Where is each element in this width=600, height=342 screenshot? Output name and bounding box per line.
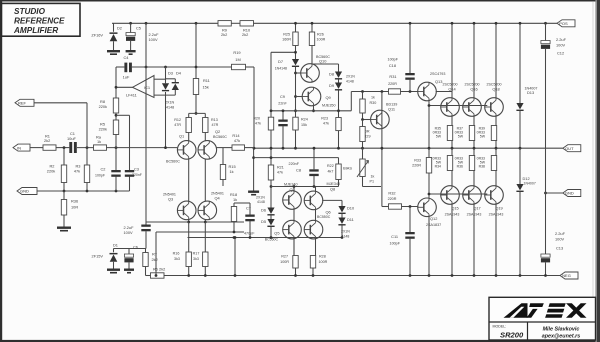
- svg-text:P1: P1: [370, 180, 375, 184]
- svg-text:15k: 15k: [301, 123, 307, 127]
- svg-text:5W: 5W: [458, 135, 464, 139]
- svg-text:220nF: 220nF: [132, 173, 142, 177]
- svg-text:C6: C6: [133, 245, 138, 250]
- svg-text:GND: GND: [20, 189, 29, 194]
- svg-text:Q10: Q10: [319, 59, 327, 64]
- svg-text:R22: R22: [327, 164, 334, 168]
- svg-text:10uF: 10uF: [67, 136, 76, 141]
- svg-text:Q11: Q11: [388, 107, 395, 112]
- svg-text:4k7: 4k7: [328, 170, 334, 174]
- svg-text:Q6: Q6: [326, 210, 331, 215]
- svg-text:2SA1943: 2SA1943: [489, 213, 504, 217]
- svg-text:1k: 1k: [233, 197, 237, 202]
- svg-text:1M: 1M: [235, 57, 240, 62]
- svg-text:47k: 47k: [255, 122, 261, 126]
- svg-text:2SA1943: 2SA1943: [467, 213, 482, 217]
- svg-text:R34: R34: [435, 165, 441, 169]
- svg-text:R36: R36: [71, 199, 78, 204]
- svg-text:BC560C: BC560C: [166, 160, 180, 164]
- svg-text:C2: C2: [101, 167, 106, 172]
- svg-text:15k: 15k: [203, 85, 209, 90]
- svg-text:R7: R7: [152, 252, 157, 257]
- svg-text:C3: C3: [134, 167, 139, 172]
- svg-text:100pF: 100pF: [388, 58, 399, 62]
- svg-text:47k: 47k: [323, 122, 329, 126]
- svg-text:Q13: Q13: [435, 79, 442, 84]
- svg-text:3k3: 3k3: [193, 257, 199, 261]
- svg-text:100V: 100V: [555, 237, 564, 242]
- svg-text:IC1: IC1: [144, 85, 151, 90]
- svg-text:D10: D10: [347, 206, 355, 211]
- svg-text:R23: R23: [321, 117, 328, 121]
- svg-text:Q14: Q14: [448, 87, 456, 92]
- svg-text:D6: D6: [261, 208, 266, 213]
- svg-text:R6 2k2: R6 2k2: [153, 267, 165, 272]
- svg-text:2SA1837: 2SA1837: [426, 223, 441, 227]
- svg-text:C18: C18: [389, 63, 396, 68]
- svg-text:OUT: OUT: [565, 146, 574, 151]
- svg-text:D8: D8: [329, 72, 334, 77]
- svg-text:MJE340: MJE340: [327, 182, 341, 186]
- svg-text:R17: R17: [193, 252, 200, 256]
- svg-text:Q3: Q3: [168, 197, 173, 202]
- svg-text:C13: C13: [556, 246, 563, 251]
- svg-text:BC550C: BC550C: [317, 215, 331, 219]
- svg-text:2F15V: 2F15V: [92, 254, 104, 259]
- svg-text:4148: 4148: [166, 106, 174, 110]
- svg-text:2k2: 2k2: [44, 138, 50, 143]
- svg-text:1N4007: 1N4007: [524, 182, 536, 186]
- svg-text:2SA1943: 2SA1943: [445, 213, 460, 217]
- svg-text:GND: GND: [565, 191, 574, 196]
- svg-text:R28: R28: [319, 255, 326, 259]
- svg-text:R19: R19: [233, 50, 240, 55]
- svg-text:220k: 220k: [99, 104, 107, 109]
- svg-text:2k2: 2k2: [242, 32, 248, 37]
- svg-text:R27: R27: [281, 255, 288, 259]
- svg-text:5W: 5W: [480, 135, 486, 139]
- svg-text:LF411: LF411: [126, 93, 137, 98]
- svg-text:D5: D5: [261, 219, 266, 224]
- svg-text:47k: 47k: [234, 138, 240, 143]
- svg-text:47k: 47k: [74, 169, 80, 174]
- svg-text:Q17: Q17: [473, 206, 480, 211]
- svg-text:Q12: Q12: [430, 216, 437, 221]
- svg-text:Q9: Q9: [326, 95, 331, 100]
- svg-text:160R: 160R: [282, 38, 291, 42]
- svg-text:100pF: 100pF: [390, 242, 401, 246]
- svg-text:220nF: 220nF: [289, 162, 300, 166]
- svg-text:Q15: Q15: [451, 206, 458, 211]
- svg-text:1k: 1k: [371, 175, 375, 179]
- svg-text:STUDIO: STUDIO: [14, 7, 46, 16]
- svg-text:220R: 220R: [388, 82, 397, 86]
- svg-text:100V: 100V: [556, 43, 565, 48]
- svg-text:R20: R20: [253, 117, 260, 121]
- svg-text:Q5: Q5: [274, 231, 279, 236]
- svg-text:R26: R26: [317, 33, 324, 37]
- svg-text:100R: 100R: [319, 260, 328, 264]
- svg-text:47R: 47R: [174, 123, 181, 127]
- svg-text:Q4: Q4: [215, 196, 221, 201]
- svg-text:100R: 100R: [317, 38, 326, 42]
- svg-text:R25: R25: [283, 33, 290, 37]
- svg-text:2X1N: 2X1N: [256, 196, 265, 200]
- svg-text:47R: 47R: [212, 123, 219, 127]
- svg-text:Q1: Q1: [179, 133, 184, 138]
- svg-text:470pF: 470pF: [244, 232, 255, 236]
- svg-text:100V: 100V: [149, 37, 158, 42]
- svg-text:2X1N: 2X1N: [165, 101, 175, 105]
- svg-text:4148: 4148: [346, 80, 354, 84]
- svg-text:2k2: 2k2: [152, 257, 158, 262]
- svg-text:R12: R12: [174, 118, 181, 122]
- svg-text:C4: C4: [124, 55, 130, 60]
- svg-text:22nF: 22nF: [278, 102, 287, 106]
- svg-text:R24: R24: [301, 118, 308, 122]
- svg-text:Q2: Q2: [215, 129, 220, 134]
- svg-text:R31: R31: [389, 74, 396, 79]
- svg-text:D12: D12: [523, 176, 530, 181]
- svg-text:2.2uF: 2.2uF: [556, 37, 567, 42]
- svg-text:BIAS: BIAS: [343, 166, 352, 171]
- svg-text:BC560C: BC560C: [213, 135, 227, 139]
- svg-text:4148: 4148: [257, 200, 265, 204]
- svg-text:R21: R21: [277, 166, 284, 170]
- svg-text:1k: 1k: [371, 96, 375, 100]
- svg-text:D9: D9: [329, 83, 334, 88]
- svg-text:100pF: 100pF: [95, 174, 105, 178]
- svg-text:ZF16V: ZF16V: [91, 33, 103, 38]
- svg-text:R36: R36: [457, 165, 463, 169]
- svg-text:AMPLIFIER: AMPLIFIER: [13, 26, 58, 35]
- svg-text:220R: 220R: [388, 197, 397, 201]
- svg-text:MODEL:: MODEL:: [493, 325, 507, 329]
- svg-text:220k: 220k: [99, 126, 107, 131]
- svg-text:1uF: 1uF: [123, 75, 130, 80]
- svg-text:D11: D11: [347, 217, 354, 222]
- svg-text:D1: D1: [113, 243, 118, 248]
- svg-text:R13: R13: [211, 118, 218, 122]
- svg-text:100R: 100R: [280, 260, 289, 264]
- svg-text:POS: POS: [559, 21, 568, 26]
- svg-text:IN: IN: [17, 145, 21, 150]
- svg-text:10R: 10R: [71, 205, 78, 210]
- svg-text:5W: 5W: [436, 135, 442, 139]
- svg-text:R16: R16: [173, 252, 180, 256]
- svg-text:R30: R30: [370, 101, 377, 105]
- svg-text:REF: REF: [18, 101, 27, 106]
- svg-text:D3: D3: [168, 71, 173, 76]
- svg-text:1k: 1k: [97, 139, 101, 144]
- svg-text:R32: R32: [388, 191, 395, 196]
- svg-text:apex@eunet.rs: apex@eunet.rs: [542, 334, 581, 340]
- svg-text:Mile Slavkovic: Mile Slavkovic: [543, 327, 580, 333]
- svg-text:Q16: Q16: [470, 87, 477, 92]
- svg-text:2X1N: 2X1N: [346, 75, 355, 79]
- svg-text:Q18: Q18: [492, 87, 499, 92]
- svg-text:2X1N: 2X1N: [341, 230, 350, 234]
- svg-text:100V: 100V: [124, 230, 133, 235]
- svg-text:220R: 220R: [412, 164, 421, 168]
- svg-text:D13: D13: [527, 90, 534, 95]
- svg-text:Q8: Q8: [330, 187, 335, 192]
- svg-text:C8: C8: [296, 168, 301, 173]
- svg-text:NEG: NEG: [562, 273, 571, 278]
- svg-text:2.2uF: 2.2uF: [555, 231, 566, 236]
- svg-text:MJE340: MJE340: [284, 183, 298, 187]
- svg-text:C9: C9: [280, 94, 285, 99]
- svg-text:2k2: 2k2: [221, 32, 227, 37]
- svg-text:C11: C11: [391, 234, 398, 239]
- svg-text:SR200: SR200: [500, 331, 524, 340]
- svg-text:47k: 47k: [277, 171, 283, 175]
- svg-text:D4: D4: [176, 71, 182, 76]
- svg-text:Q19: Q19: [495, 206, 502, 211]
- svg-text:3k3: 3k3: [174, 257, 180, 261]
- svg-text:1N4148: 1N4148: [275, 67, 287, 71]
- svg-text:R11: R11: [203, 78, 210, 83]
- svg-text:R38: R38: [479, 165, 485, 169]
- svg-text:220k: 220k: [47, 169, 55, 174]
- svg-text:REFERENCE: REFERENCE: [14, 17, 65, 26]
- svg-text:D7: D7: [278, 59, 283, 64]
- svg-text:C12: C12: [557, 51, 564, 56]
- svg-text:D2: D2: [117, 26, 122, 31]
- svg-text:MJE350: MJE350: [322, 104, 336, 108]
- svg-text:R33: R33: [414, 159, 421, 163]
- svg-text:1k: 1k: [230, 169, 234, 174]
- svg-text:2SC4793: 2SC4793: [430, 72, 445, 76]
- svg-text:C5: C5: [136, 26, 141, 31]
